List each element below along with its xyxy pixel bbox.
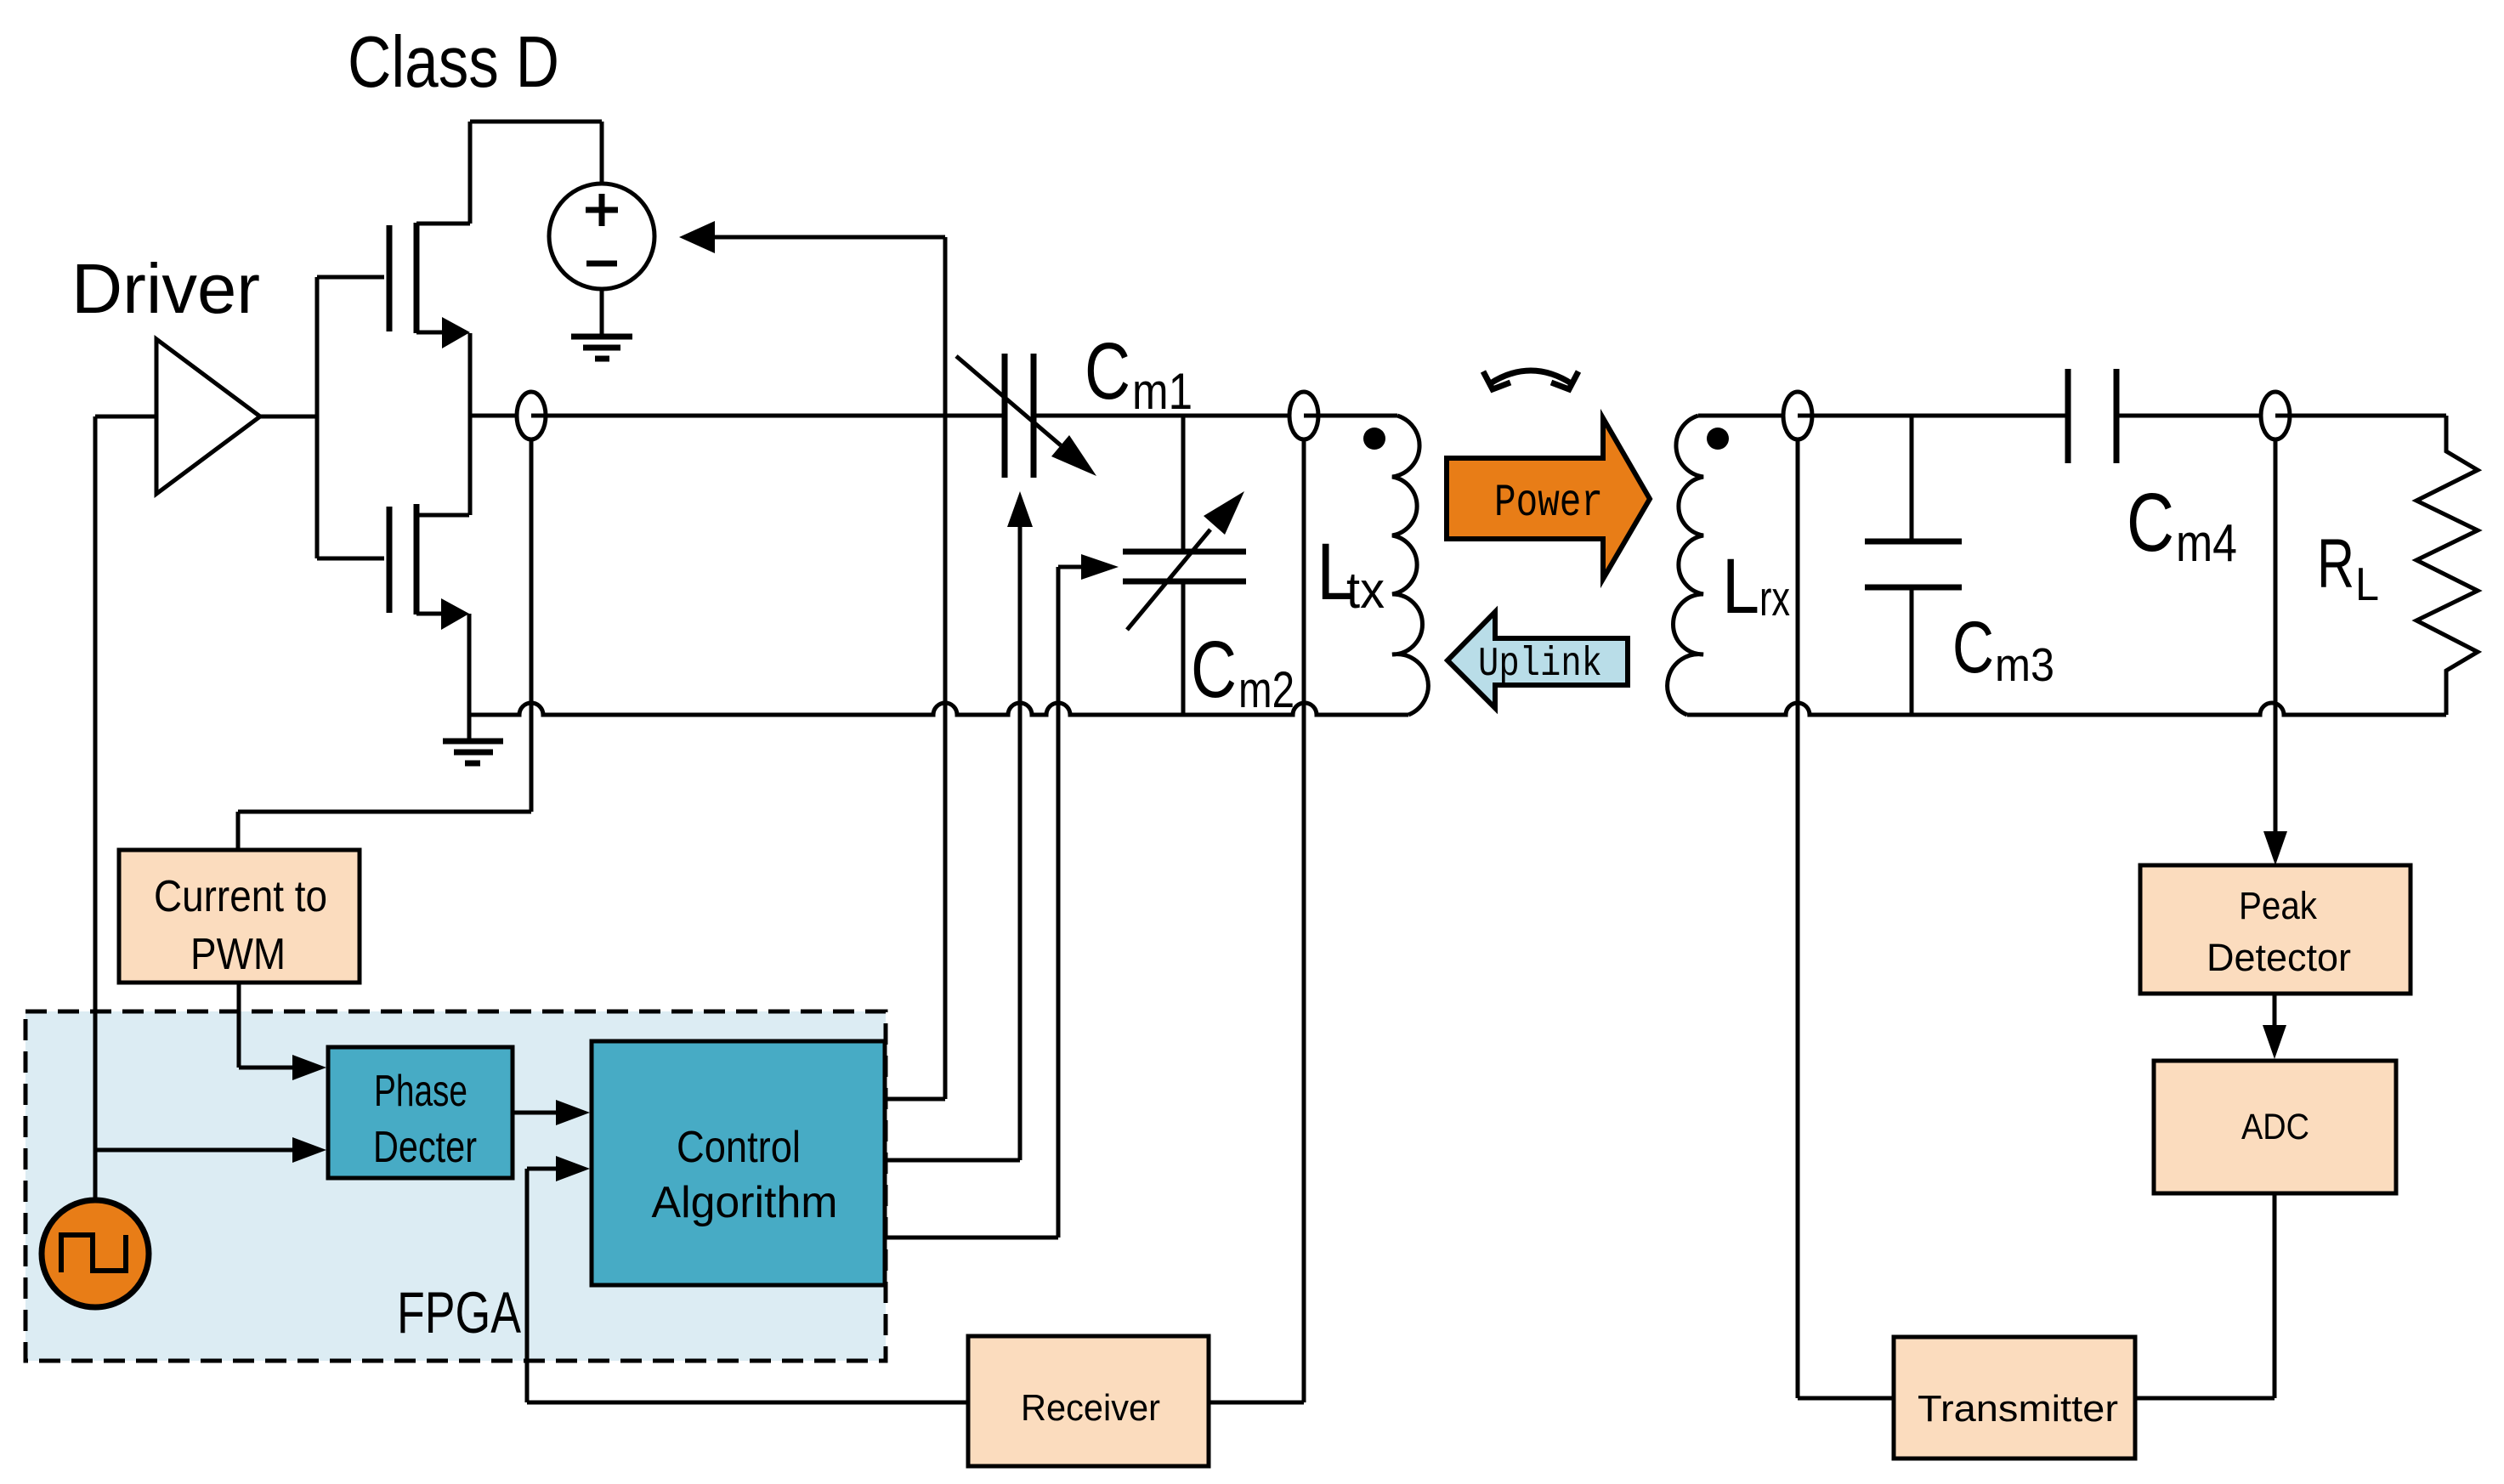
svg-text:Algorithm: Algorithm (652, 1178, 838, 1227)
wire ADC to Transmitter (2135, 1193, 2275, 1398)
wire VDD top (470, 122, 602, 184)
wire feedback arrow into V1 (679, 221, 945, 253)
wire top rail (RX) (1698, 414, 2446, 418)
svg-text:Phase: Phase (374, 1067, 467, 1116)
capacitor Cm3 (shunt) (1865, 416, 1962, 715)
node sense oval Ltx (1289, 392, 1318, 439)
voltage source V1 (549, 184, 654, 337)
svg-text:C: C (1085, 326, 1130, 416)
clock source (42, 1200, 149, 1307)
wire top rail (TX) (470, 414, 1397, 418)
wire PWM out to Phase Decter (239, 983, 326, 1080)
svg-text:PWM: PWM (190, 930, 286, 979)
svg-text:C: C (1191, 625, 1237, 715)
inductor Lrx (1668, 416, 1729, 715)
wire upper gate lead (317, 275, 384, 280)
buffer driver (156, 339, 260, 494)
svg-text:Driver: Driver (71, 249, 260, 328)
svg-text:Current to: Current to (154, 872, 327, 921)
wire receiver feedback to Control Algorithm (527, 1156, 968, 1402)
Uplink arrow (1447, 612, 1628, 708)
svg-text:L: L (1722, 543, 1759, 630)
transistor Q2 (low side NMOS) (317, 504, 469, 715)
wire control line 2 (arrow up to Cm1) (885, 491, 1033, 1160)
svg-text:tx: tx (1346, 562, 1385, 619)
Power arrow (1447, 418, 1650, 579)
resistor RL (2416, 416, 2478, 715)
block Transmitter (1894, 1337, 2135, 1459)
block Control Algorithm (592, 1041, 885, 1285)
wire driver output (260, 415, 317, 419)
node sense oval Lrx (1783, 392, 1812, 439)
block Peak Detector (2140, 865, 2411, 994)
svg-text:Transmitter: Transmitter (1918, 1388, 2118, 1430)
svg-text:ADC: ADC (2241, 1107, 2309, 1147)
capacitor Cm4 (series) (2068, 369, 2116, 463)
svg-text:Control: Control (677, 1123, 801, 1172)
wire peak detector to ADC (2263, 994, 2286, 1059)
svg-text:FPGA: FPGA (397, 1280, 521, 1345)
svg-text:rx: rx (1759, 571, 1790, 626)
wire Lrx tap down to transmitter (1798, 439, 1894, 1398)
svg-text:Detector: Detector (2207, 936, 2351, 979)
transistor Q1 (high side NMOS) (389, 122, 470, 515)
coupling arrow (1483, 371, 1578, 389)
wire control line 1 (to V1) (943, 237, 948, 1099)
svg-text:m1: m1 (1132, 363, 1193, 420)
svg-text:m4: m4 (2176, 514, 2237, 573)
svg-text:Uplink: Uplink (1478, 642, 1602, 688)
svg-text:Decter: Decter (373, 1123, 477, 1172)
capacitor Cm1 (variable, series) (956, 354, 1096, 478)
wire Phase Decter to Control Algorithm (513, 1100, 590, 1125)
capacitor Cm2 (variable, shunt) (1123, 416, 1246, 715)
wire through oval (531, 414, 546, 418)
inductor Ltx (1363, 416, 1428, 715)
wire bottom rail (TX) with hops (469, 703, 1408, 715)
wire gate bus (315, 277, 320, 558)
svg-text:Class D: Class D (348, 22, 559, 103)
block ADC (2154, 1061, 2396, 1193)
ground (VDD source) (571, 337, 632, 359)
wire peak detector arrow (2263, 439, 2287, 865)
svg-text:C: C (2127, 476, 2174, 569)
svg-text:Peak: Peak (2239, 884, 2317, 927)
svg-text:C: C (1952, 607, 1994, 688)
svg-text:Power: Power (1494, 478, 1603, 530)
svg-text:L: L (2355, 558, 2379, 610)
FPGA region (25, 1011, 886, 1361)
ground (half bridge) (443, 715, 503, 763)
block Receiver (968, 1336, 1209, 1466)
svg-text:Receiver: Receiver (1021, 1387, 1160, 1429)
wire control algorithm outputs (885, 1097, 945, 1102)
wire driver input (95, 415, 156, 419)
wire clock to Phase Decter (95, 1137, 326, 1163)
wire clock to driver (93, 416, 98, 1198)
wire bottom rail (RX) with hops (1687, 703, 2446, 715)
svg-text:m3: m3 (1995, 638, 2054, 691)
svg-text:m2: m2 (1238, 661, 1294, 718)
block Current to PWM (119, 850, 360, 983)
wire current sense to PWM block (238, 439, 531, 850)
wire Ltx tap down to receiver loop (1302, 439, 1306, 1402)
node sense oval TX output (517, 392, 546, 439)
wire receiver to Ltx tap (1209, 1401, 1304, 1405)
node sense oval load (2261, 392, 2290, 439)
svg-text:R: R (2317, 525, 2354, 603)
wire control line 3 (arrow to Cm2) (885, 554, 1119, 1238)
block Phase Decter (328, 1047, 513, 1178)
